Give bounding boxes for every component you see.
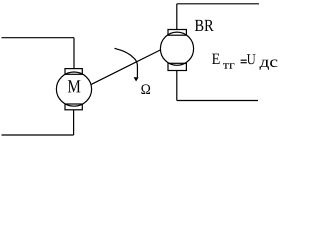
- equals sign bar 1: [241, 60, 247, 61]
- tachogenerator BR circle: [160, 32, 193, 65]
- label E: [212, 54, 220, 64]
- wire top-left horizontal: [2, 37, 75, 39]
- shaft wire between M and BR: [92, 50, 161, 84]
- arrowhead of rotation arrow: [134, 77, 139, 81]
- wire bottom-left vertical from motor brush: [73, 110, 75, 135]
- label U: [247, 54, 256, 64]
- motor M circle: [56, 72, 91, 106]
- BR top brush: [168, 30, 186, 36]
- subscript тг: [223, 63, 235, 68]
- rotation arc: [115, 48, 138, 77]
- label M (motor): [68, 80, 81, 92]
- motor M top brush: [65, 69, 82, 75]
- wire bottom-right horizontal: [177, 100, 258, 102]
- wire bottom-left horizontal: [2, 134, 74, 136]
- equals sign bar 2: [241, 62, 247, 63]
- wire top-left vertical to motor brush: [73, 38, 75, 69]
- subscript дс: [260, 60, 278, 71]
- wire top-right horizontal: [177, 3, 259, 5]
- wire BR top vertical: [176, 4, 178, 30]
- BR bottom brush: [168, 63, 186, 70]
- wire BR bottom vertical: [176, 71, 178, 101]
- motor M bottom brush: [65, 104, 82, 110]
- label BR (tachogenerator): [195, 20, 214, 31]
- label Omega (shaft speed): [141, 84, 150, 94]
